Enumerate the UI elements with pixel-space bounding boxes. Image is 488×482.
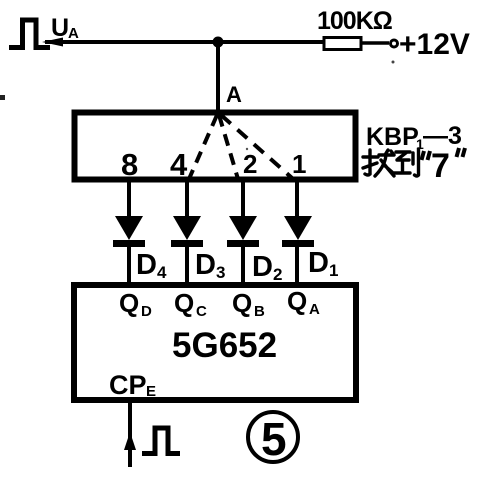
svg-text:2: 2 — [273, 265, 282, 284]
svg-text:CP: CP — [109, 370, 147, 400]
svg-text:D: D — [195, 249, 216, 281]
diode D4 — [115, 216, 143, 240]
拨 hand radical — [363, 150, 378, 175]
diode D3 — [173, 216, 201, 240]
svg-text:3: 3 — [216, 263, 225, 282]
拨 right part — [375, 150, 394, 176]
svg-text:8: 8 — [121, 147, 138, 182]
svg-text:1: 1 — [292, 149, 306, 179]
wire D1 to QA — [295, 243, 299, 284]
svg-text:+12V: +12V — [399, 28, 470, 61]
svg-text:D: D — [136, 249, 157, 281]
pulse symbol UA input — [9, 20, 50, 48]
svg-text:1: 1 — [329, 261, 338, 280]
wire D2 to QB — [241, 243, 245, 284]
svg-text:A: A — [309, 301, 320, 318]
box KBP1-3 switch — [75, 113, 356, 180]
arrowhead clock up — [124, 432, 136, 450]
svg-text:D: D — [141, 303, 152, 320]
svg-text:5: 5 — [261, 413, 287, 465]
svg-text:Q: Q — [119, 288, 139, 318]
wire pin2 to diode D2 — [241, 182, 245, 218]
svg-text:E: E — [146, 383, 156, 400]
svg-text:4: 4 — [157, 263, 167, 282]
svg-text:4: 4 — [170, 147, 188, 182]
svg-text:A: A — [68, 25, 79, 42]
pulse symbol clock — [142, 428, 180, 454]
wire vertical from junction to node A — [216, 42, 220, 116]
到 knife 刂 — [413, 149, 419, 176]
svg-text:Q: Q — [287, 286, 307, 316]
arrowhead on wire toward UA — [42, 38, 63, 47]
scan speck below terminal — [392, 61, 395, 64]
dashed line A to pin 4 — [189, 115, 217, 179]
wire D4 to QD — [127, 243, 131, 284]
scan speck near fan — [246, 148, 248, 150]
svg-text:2: 2 — [243, 149, 257, 179]
wire pin8 to diode D4 — [127, 182, 131, 218]
scan speck left edge — [0, 95, 5, 100]
svg-text:Q: Q — [174, 288, 194, 318]
figure number 5 circled — [248, 412, 298, 462]
dashed line A to pin 1 — [221, 115, 292, 178]
chinese label 拨到"7" drawn strokes — [363, 149, 419, 176]
dashed line A to pin 2 — [219, 115, 238, 179]
wire pin1 to diode D1 — [295, 182, 299, 218]
opening quote — [422, 151, 431, 160]
svg-text:U: U — [51, 14, 69, 42]
terminal circle +12V — [391, 40, 398, 47]
wire clock input — [128, 400, 132, 467]
wire main horizontal — [45, 40, 325, 44]
junction node dot — [213, 37, 224, 48]
svg-text:C: C — [196, 303, 207, 320]
svg-text:7: 7 — [431, 147, 450, 185]
svg-text:5G652: 5G652 — [172, 326, 277, 365]
wire D3 to QC — [185, 243, 189, 284]
svg-text:100KΩ: 100KΩ — [317, 7, 393, 35]
wire pin4 to diode D3 — [185, 182, 189, 218]
svg-text:B: B — [254, 303, 265, 320]
closing quote — [457, 148, 466, 157]
到 left 至 — [394, 152, 410, 173]
svg-text:D: D — [252, 251, 273, 283]
svg-text:D: D — [308, 247, 329, 279]
wire resistor to +12V terminal — [361, 41, 389, 45]
diode D1 — [284, 216, 312, 240]
svg-text:KBP: KBP — [366, 123, 419, 151]
svg-text:—3: —3 — [423, 122, 462, 150]
diode D2 — [229, 216, 257, 240]
resistor R body — [324, 38, 361, 50]
IC box 5G652 — [74, 285, 356, 400]
svg-text:Q: Q — [232, 288, 252, 318]
svg-text:A: A — [226, 82, 242, 107]
